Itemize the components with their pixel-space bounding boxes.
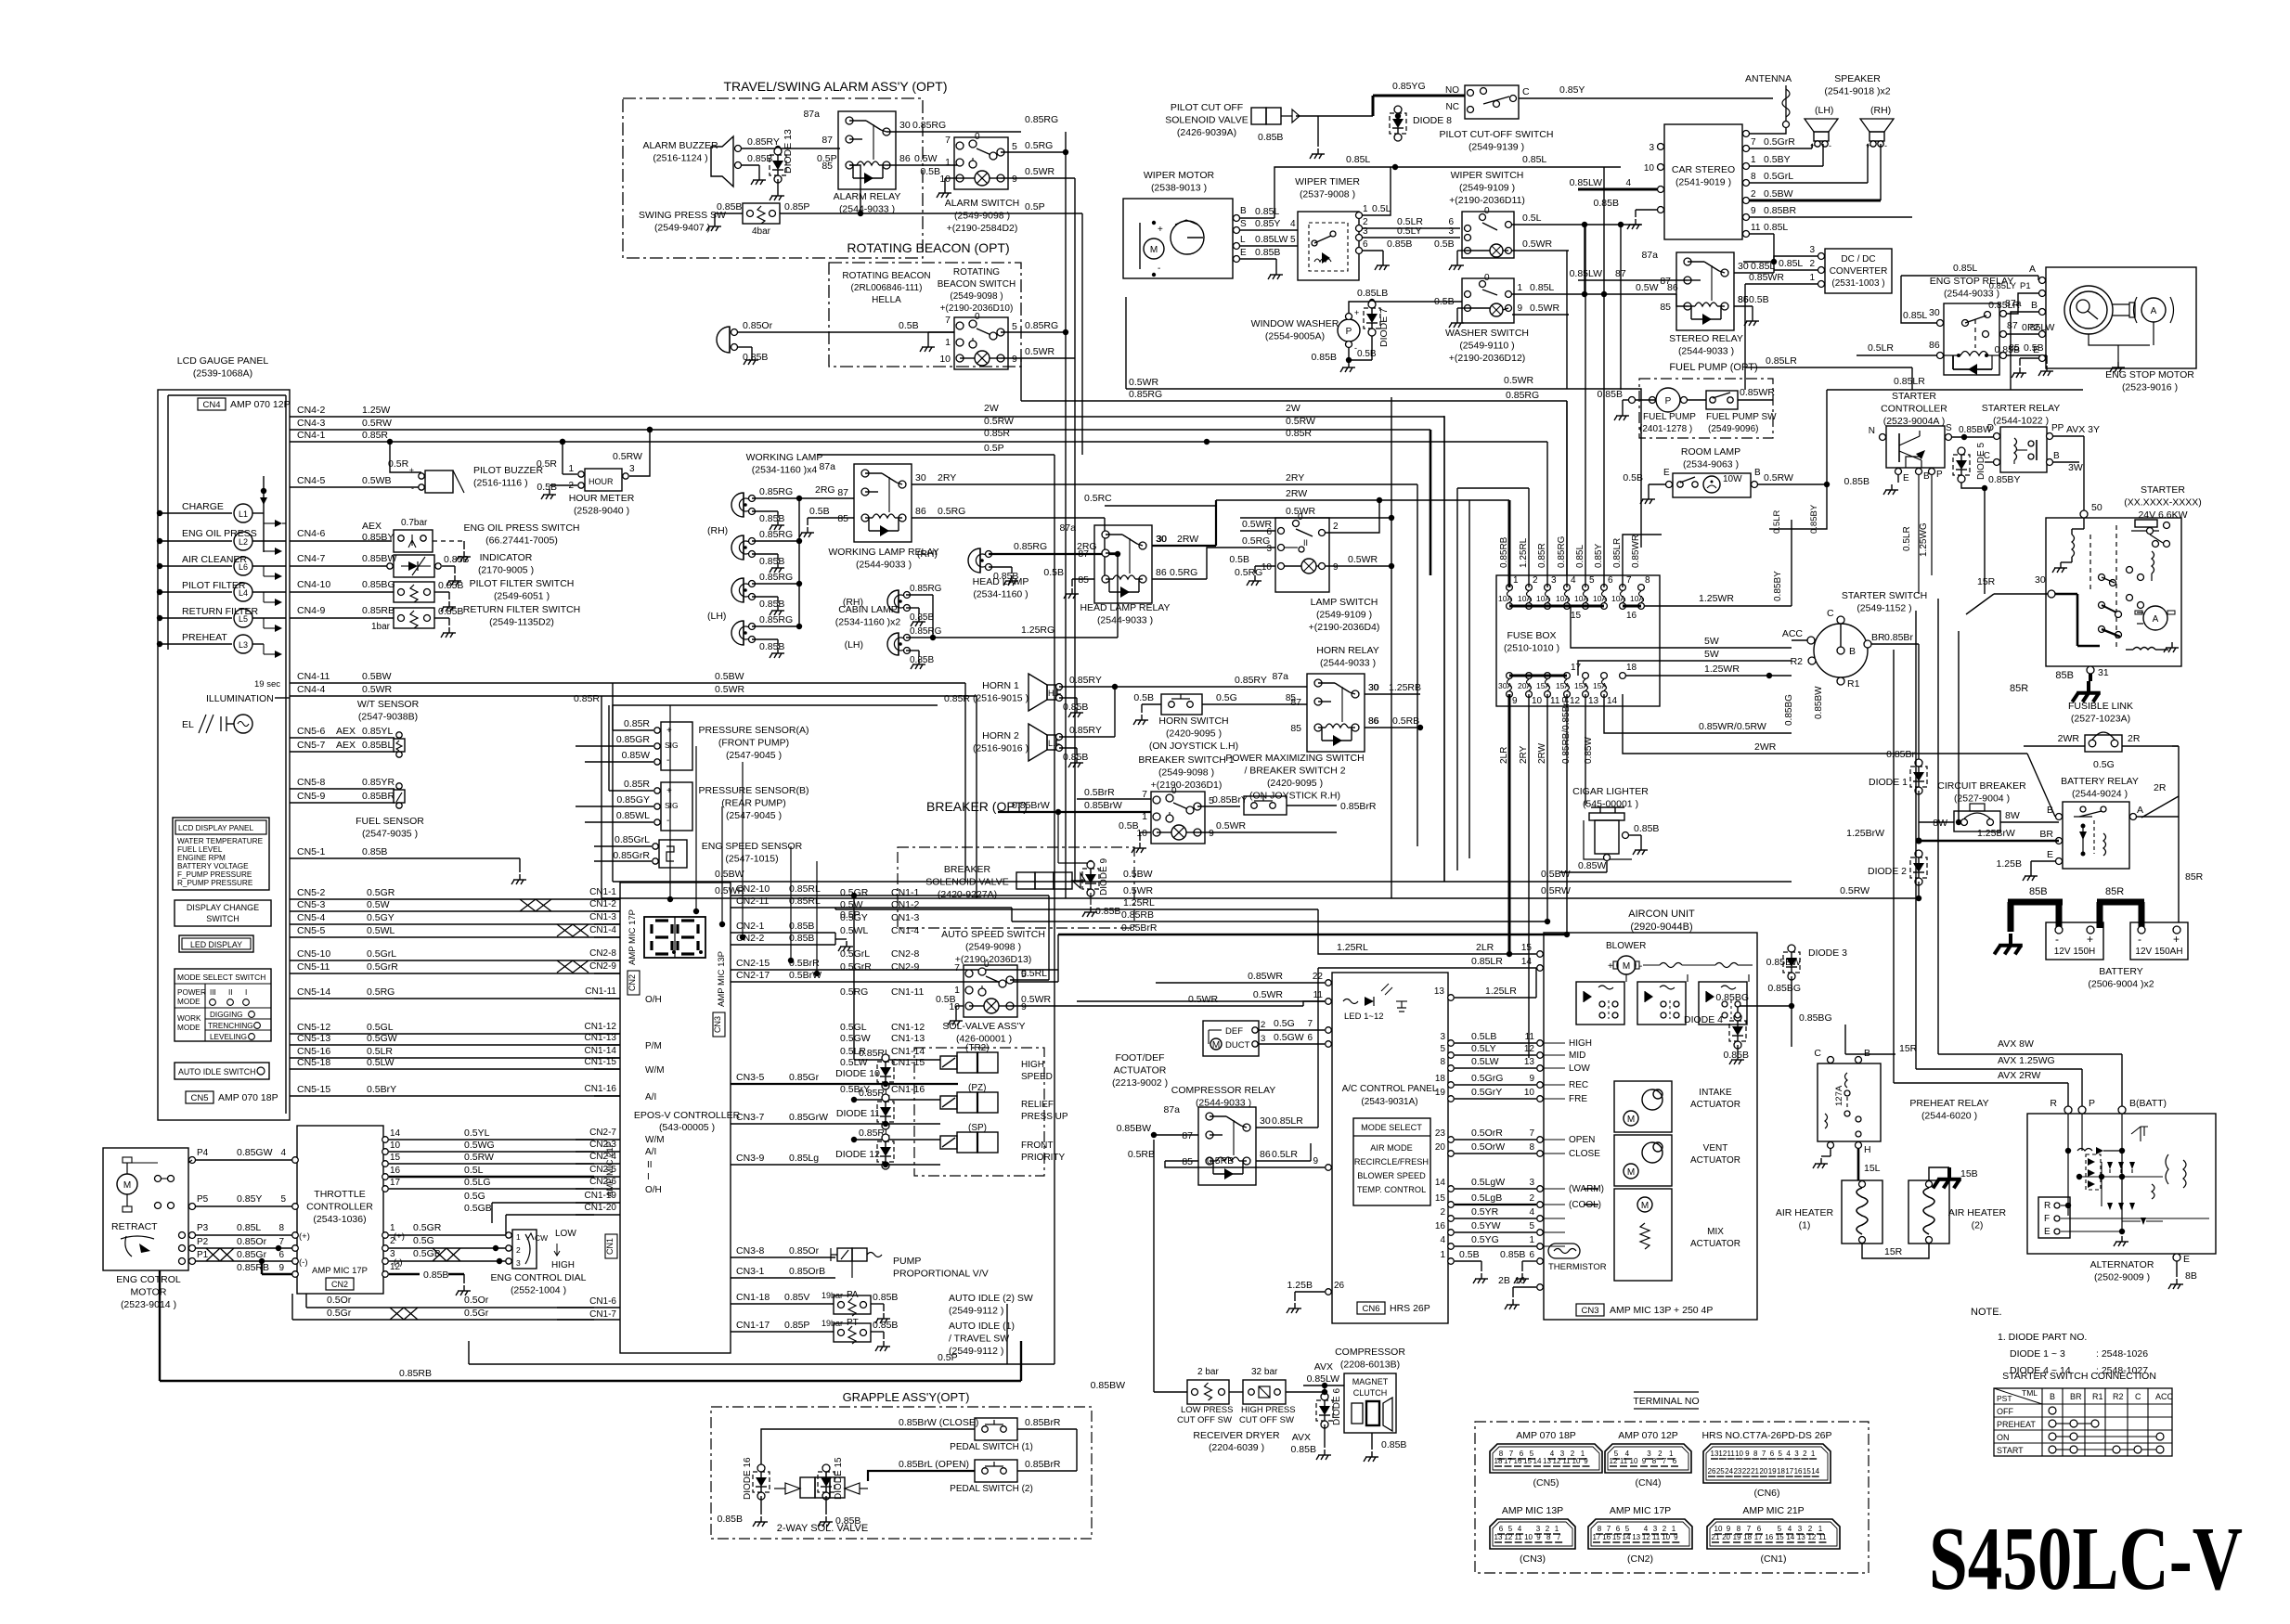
svg-text:(2549-9098 ): (2549-9098 ) — [1158, 767, 1214, 779]
svg-text:STARTER: STARTER — [1892, 391, 1936, 402]
starter relay pins — [1984, 423, 2064, 466]
svg-text:CN5-9: CN5-9 — [297, 791, 326, 802]
svg-text:0.85RG: 0.85RG — [759, 614, 793, 625]
svg-text:(FRONT PUMP): (FRONT PUMP) — [718, 738, 789, 749]
starter pin 31 ground — [2055, 666, 2108, 702]
svg-text:E: E — [2183, 1254, 2190, 1265]
compressor wires — [1303, 1361, 1344, 1397]
wire 0.5WR wiper sw out — [1512, 238, 1569, 251]
svg-text:0.5BW: 0.5BW — [1541, 869, 1571, 880]
aircon blower — [1606, 941, 1753, 974]
wire ACC — [1792, 639, 1807, 641]
svg-text:5W: 5W — [1704, 636, 1719, 647]
thick wire 0.85YG — [1296, 81, 1465, 119]
svg-text:17: 17 — [1504, 1457, 1512, 1465]
svg-text:+: + — [666, 786, 672, 796]
label battery — [2088, 966, 2154, 990]
svg-text:R_PUMP PRESSURE: R_PUMP PRESSURE — [177, 879, 253, 887]
svg-text:3: 3 — [1536, 1525, 1541, 1533]
charge diodes — [260, 497, 286, 527]
svg-text:7: 7 — [1529, 1128, 1534, 1139]
wire CN3-8 0.85Or — [731, 1245, 835, 1257]
svg-text:(2544-9033 ): (2544-9033 ) — [1678, 346, 1734, 357]
svg-text:31: 31 — [2098, 667, 2109, 678]
svg-text:1: 1 — [1809, 273, 1815, 283]
alarm buzzer BZ1 — [642, 136, 741, 187]
wire 0.85L A — [1901, 276, 2038, 280]
wiper timer pins — [1356, 204, 1369, 254]
svg-text:3: 3 — [1809, 245, 1815, 255]
svg-text:NC: NC — [1446, 102, 1459, 112]
svg-text:14: 14 — [1607, 696, 1618, 706]
svg-text:1: 1 — [1672, 1525, 1676, 1533]
svg-text:AMP 070 12P: AMP 070 12P — [230, 399, 291, 410]
svg-text:85B: 85B — [2055, 670, 2074, 681]
svg-text:P4: P4 — [197, 1148, 209, 1158]
starter controller pins — [1869, 423, 1952, 483]
svg-text:0.5B: 0.5B — [537, 482, 557, 493]
svg-text:(2539-1068A): (2539-1068A) — [193, 368, 252, 380]
window washer pump P1 — [1338, 308, 1360, 353]
label lcd gauge panel — [177, 355, 269, 380]
svg-text:(LH): (LH) — [707, 611, 726, 622]
svg-text:23: 23 — [1733, 1467, 1741, 1476]
verticals between horns and breaker — [0, 0, 1, 1]
svg-text:CONVERTER: CONVERTER — [1830, 266, 1888, 277]
svg-text:RETRACT: RETRACT — [111, 1221, 158, 1232]
CN5 signal rows — [290, 887, 925, 1096]
svg-text:0.5GR: 0.5GR — [367, 887, 395, 898]
svg-text:0.5RG: 0.5RG — [938, 506, 965, 517]
svg-text:PILOT FILTER SWITCH: PILOT FILTER SWITCH — [470, 578, 575, 589]
svg-text:2W: 2W — [984, 403, 999, 414]
svg-text:0.85R: 0.85R — [1286, 428, 1312, 439]
wire 10 0.5B to ground — [920, 166, 960, 198]
svg-text:87: 87 — [1660, 276, 1671, 287]
epos left pin rows lower — [576, 1128, 620, 1215]
svg-text:RECEIVER DRYER: RECEIVER DRYER — [1193, 1430, 1280, 1441]
svg-text:CN4-6: CN4-6 — [297, 528, 326, 539]
svg-text:0.5WR: 0.5WR — [1253, 989, 1284, 1000]
svg-text:CN3-9: CN3-9 — [736, 1153, 765, 1164]
svg-text:0.85B: 0.85B — [1995, 344, 2020, 355]
svg-text:0.85RY: 0.85RY — [1235, 675, 1267, 686]
label speaker LH — [1815, 105, 1833, 116]
svg-text:1.25WR: 1.25WR — [1704, 664, 1740, 675]
throttle P4 wire — [188, 1147, 298, 1164]
label 0.85L A — [1953, 263, 2046, 284]
svg-text:14: 14 — [1435, 1178, 1446, 1188]
svg-text:(CN4): (CN4) — [1636, 1477, 1662, 1489]
thermistor — [1548, 1244, 1607, 1272]
svg-text:30: 30 — [1929, 307, 1940, 318]
svg-text:STARTER SWITCH: STARTER SWITCH — [1842, 590, 1927, 601]
svg-text:15R: 15R — [1884, 1246, 1903, 1257]
svg-text:17: 17 — [1785, 1467, 1793, 1476]
svg-text:ALARM SWITCH: ALARM SWITCH — [945, 198, 1020, 209]
svg-text:22: 22 — [1742, 1467, 1751, 1476]
svg-text:TRENCHING: TRENCHING — [208, 1022, 253, 1030]
svg-text:0.85B: 0.85B — [1291, 1444, 1316, 1455]
svg-text:+(2190-2036D11): +(2190-2036D11) — [1449, 195, 1525, 206]
svg-text:PREHEAT: PREHEAT — [182, 632, 227, 643]
wire 0.85LW wiper L — [1240, 234, 1298, 246]
wire 11 0.85L down to stereo relay — [1743, 234, 1777, 264]
label air heater 1 — [1776, 1207, 1834, 1231]
svg-text:15: 15 — [1435, 1193, 1446, 1204]
svg-text:CN5-16: CN5-16 — [297, 1046, 330, 1057]
wire 0.85L wiper B — [1240, 154, 1621, 218]
label eng stop relay — [1930, 276, 2013, 300]
diode D10 — [835, 1054, 894, 1089]
svg-text:0.85BG: 0.85BG — [362, 579, 395, 590]
label rotating beacon — [842, 271, 930, 305]
svg-text:15: 15 — [1776, 1533, 1784, 1541]
svg-text:CN4-5: CN4-5 — [297, 475, 326, 486]
svg-text:86: 86 — [1156, 567, 1167, 578]
svg-text:GRAPPLE ASS'Y(OPT): GRAPPLE ASS'Y(OPT) — [843, 1390, 970, 1404]
head lamp relay K6 — [1059, 522, 1166, 603]
svg-text:0.5YR: 0.5YR — [1471, 1206, 1499, 1218]
svg-text:1.25RL: 1.25RL — [1123, 897, 1155, 909]
svg-text:1: 1 — [1363, 204, 1368, 214]
wire CN4-5 0.5WB — [290, 475, 425, 487]
svg-text:10A: 10A — [1630, 594, 1644, 603]
epos 7seg display — [644, 917, 705, 958]
svg-text:1: 1 — [1751, 155, 1756, 165]
svg-text:9: 9 — [1674, 1533, 1678, 1541]
svg-text:1: 1 — [568, 464, 574, 474]
svg-text:0.85Br: 0.85Br — [1884, 632, 1913, 643]
svg-text:0.85B: 0.85B — [1063, 702, 1088, 713]
svg-text:10: 10 — [1572, 1457, 1581, 1465]
svg-text:15A: 15A — [1574, 681, 1588, 690]
svg-text:0.85RB: 0.85RB — [399, 1368, 432, 1379]
svg-text:CN1-13: CN1-13 — [585, 1033, 617, 1043]
svg-text:2: 2 — [390, 1236, 395, 1246]
label starter switch connection — [2002, 1371, 2156, 1382]
svg-text:14: 14 — [1533, 1457, 1542, 1465]
svg-text:(LH): (LH) — [1815, 105, 1833, 116]
svg-text:0.5BY: 0.5BY — [1764, 154, 1791, 165]
svg-text:OFF: OFF — [1997, 1407, 2013, 1416]
svg-text:-: - — [666, 816, 669, 826]
svg-text:E: E — [2047, 849, 2053, 860]
throttle P5 wire — [189, 1193, 299, 1210]
svg-text:0.5WR: 0.5WR — [1348, 554, 1378, 565]
svg-text:17: 17 — [390, 1178, 401, 1188]
svg-text:DIODE 12: DIODE 12 — [835, 1149, 880, 1160]
horn switch — [1133, 692, 1307, 725]
svg-text:L1: L1 — [239, 509, 248, 519]
svg-text:CN5-18: CN5-18 — [297, 1057, 330, 1068]
svg-text:14: 14 — [1521, 957, 1533, 967]
svg-text:P: P — [1936, 470, 1943, 480]
svg-text:0.85B: 0.85B — [759, 513, 784, 524]
svg-text:PRESSURE SENSOR(A): PRESSURE SENSOR(A) — [698, 725, 809, 736]
svg-text:PST: PST — [1997, 1394, 2012, 1403]
label pressure sensor B — [698, 785, 809, 821]
svg-text:CABIN LAMP: CABIN LAMP — [838, 604, 898, 615]
svg-text:3: 3 — [1440, 1032, 1445, 1042]
svg-text:19 sec: 19 sec — [254, 679, 280, 690]
svg-text:0.85B: 0.85B — [1594, 198, 1619, 209]
svg-text:WIPER MOTOR: WIPER MOTOR — [1144, 170, 1215, 181]
svg-text:0.5G: 0.5G — [2093, 759, 2115, 770]
svg-text:+: + — [1158, 225, 1163, 235]
dcdc pins — [1809, 245, 1824, 288]
svg-text:0.5RG: 0.5RG — [1025, 140, 1053, 151]
svg-text:0: 0 — [1484, 273, 1490, 283]
svg-text:0.5GrR: 0.5GrR — [367, 961, 398, 973]
svg-text:HIGH PRESS: HIGH PRESS — [1241, 1405, 1296, 1415]
horn2 speaker — [973, 724, 1063, 761]
a/c control panel box — [1332, 973, 1448, 1323]
svg-text:M: M — [1627, 1115, 1635, 1125]
speaker wires vertical — [1812, 144, 1881, 200]
svg-text:W/M: W/M — [645, 1135, 665, 1145]
svg-text:0.5YG: 0.5YG — [1471, 1234, 1499, 1245]
label speaker — [1824, 73, 1890, 97]
svg-text:CN1-12: CN1-12 — [585, 1022, 617, 1032]
display change switch box — [175, 900, 271, 926]
svg-text:ROTATING: ROTATING — [953, 267, 1000, 277]
svg-text:CN6: CN6 — [1362, 1304, 1379, 1314]
svg-text:20: 20 — [1759, 1467, 1767, 1476]
starter relay internals — [2014, 438, 2037, 464]
pedal1 wires — [897, 1417, 1077, 1471]
wire fusible to battery relay — [2141, 782, 2179, 818]
wire 0.85B beacon gnd — [738, 347, 768, 365]
svg-text:87: 87 — [837, 487, 848, 498]
svg-text:0.85RG: 0.85RG — [1025, 320, 1058, 331]
epos W/M label — [645, 1065, 665, 1076]
svg-text:CN5-1: CN5-1 — [297, 846, 326, 857]
breaker diode9 wires — [1058, 812, 1120, 917]
svg-text:0.5GrR: 0.5GrR — [840, 961, 872, 973]
svg-text:10W: 10W — [1723, 474, 1742, 484]
svg-text:10A: 10A — [1556, 594, 1570, 603]
svg-text:0.5W: 0.5W — [914, 153, 938, 164]
wire 0.85LR y420 — [1769, 376, 2083, 529]
svg-text:CN3-8: CN3-8 — [736, 1245, 765, 1257]
diode D1 — [1869, 749, 1927, 841]
svg-text:AMP MIC 13P: AMP MIC 13P — [1502, 1505, 1563, 1516]
svg-text:0.85LR: 0.85LR — [1894, 376, 1925, 387]
label alarm relay — [834, 191, 901, 215]
svg-text:AVX: AVX — [1292, 1432, 1311, 1443]
svg-text:0.5RG: 0.5RG — [1235, 567, 1262, 578]
svg-text:(PZ): (PZ) — [968, 1083, 986, 1093]
svg-text:H: H — [1864, 1144, 1871, 1155]
svg-text:(CN5): (CN5) — [1533, 1477, 1559, 1489]
verticals 1890-1910 down — [0, 0, 1, 1]
svg-text:0.5OrW: 0.5OrW — [1471, 1141, 1505, 1153]
svg-text:3: 3 — [1448, 226, 1454, 237]
svg-text:0.5RL: 0.5RL — [1021, 968, 1047, 979]
wire 0.85RL diode11 — [851, 1088, 940, 1102]
svg-text:0: 0 — [975, 312, 980, 322]
label indicator — [478, 552, 534, 576]
svg-text:0.5LR: 0.5LR — [1772, 510, 1782, 534]
svg-text:7: 7 — [1307, 1019, 1313, 1029]
connector CN6 — [1701, 1430, 1831, 1499]
svg-text:15A: 15A — [1556, 681, 1570, 690]
wire CN4-6 0.85BY — [290, 521, 394, 543]
wire 0.85B wiper E — [1240, 247, 1283, 279]
label swing press sw — [639, 210, 726, 234]
svg-text:A: A — [2029, 264, 2036, 275]
svg-text:0.85BrR: 0.85BrR — [1025, 1459, 1061, 1470]
svg-text:CN3: CN3 — [1581, 1306, 1598, 1316]
svg-text:CN4-7: CN4-7 — [297, 553, 326, 564]
svg-text:1: 1 — [1513, 575, 1519, 586]
label wiper motor — [1144, 170, 1215, 194]
svg-text:4: 4 — [1440, 1235, 1445, 1245]
svg-text:C: C — [2135, 1392, 2141, 1401]
label power maximizing switch — [1225, 753, 1364, 802]
label compressor — [1335, 1347, 1405, 1371]
svg-text:TRAVEL/SWING ALARM ASS'Y (OPT): TRAVEL/SWING ALARM ASS'Y (OPT) — [724, 79, 948, 94]
svg-text:11: 11 — [1727, 1450, 1736, 1458]
svg-text:10: 10 — [1524, 1088, 1535, 1098]
svg-text:0.5LY: 0.5LY — [1397, 226, 1422, 237]
svg-text:11: 11 — [1652, 1533, 1661, 1541]
svg-text:2W: 2W — [1286, 403, 1300, 414]
wire 0.85LR label2 — [0, 0, 1, 1]
svg-text:0.85RB: 0.85RB — [362, 605, 395, 616]
wire 0.85LR bus — [0, 0, 1, 1]
svg-text:AMP MIC 21P: AMP MIC 21P — [605, 1141, 615, 1197]
labels eng stop motor pins — [1988, 281, 2045, 390]
svg-text:1: 1 — [1555, 1525, 1559, 1533]
svg-text:4: 4 — [1290, 219, 1296, 229]
pump proportional valve — [831, 1248, 882, 1278]
svg-text:0.85GrL: 0.85GrL — [615, 834, 650, 845]
svg-text:PILOT BUZZER: PILOT BUZZER — [473, 465, 543, 476]
svg-text:0.85B: 0.85B — [362, 846, 387, 857]
svg-text:CN1-2: CN1-2 — [589, 899, 616, 909]
pedal switch 2 — [950, 1460, 1033, 1494]
wire 0.85RB pin9 — [237, 1261, 298, 1277]
svg-text:0.5Gr: 0.5Gr — [327, 1308, 352, 1319]
diode D6 — [1291, 1388, 1342, 1460]
car stereo label — [1672, 164, 1735, 188]
label compressor relay — [1171, 1085, 1275, 1109]
starter controller internals — [1899, 431, 1925, 468]
fuel pump P2 — [1650, 388, 1688, 412]
svg-text:0.5BrR: 0.5BrR — [1084, 787, 1115, 798]
svg-text:AVX 1.25WG: AVX 1.25WG — [1998, 1055, 2055, 1066]
auto idle 1 switch PT — [834, 1318, 898, 1351]
label wiper timer — [1295, 176, 1360, 200]
svg-text:A: A — [2153, 614, 2159, 625]
epos mode labels lower — [645, 1135, 665, 1195]
svg-text:LCD DISPLAY PANEL: LCD DISPLAY PANEL — [178, 824, 253, 832]
svg-text:(2544-9033 ): (2544-9033 ) — [856, 560, 912, 571]
svg-text:3: 3 — [1551, 575, 1557, 586]
svg-text:ALTERNATOR: ALTERNATOR — [2090, 1259, 2154, 1270]
svg-text:(2534-1160 )x2: (2534-1160 )x2 — [835, 617, 901, 628]
svg-text:CN1-18: CN1-18 — [736, 1292, 770, 1303]
room lamp box — [1673, 473, 1751, 497]
svg-text:11: 11 — [1620, 1457, 1628, 1465]
svg-text:0.85W: 0.85W — [622, 750, 650, 761]
svg-text:CN1-3: CN1-3 — [891, 912, 920, 923]
svg-text:(2552-1004 ): (2552-1004 ) — [511, 1285, 566, 1296]
svg-text:87: 87 — [1078, 548, 1089, 560]
vertical 1130 0.85RL — [1048, 896, 1050, 980]
svg-text:/ TRAVEL SW: / TRAVEL SW — [949, 1334, 1009, 1345]
wire CN5-8 0.85YR — [290, 777, 395, 789]
verticals near starter controller — [0, 0, 1, 1]
svg-text:14: 14 — [390, 1128, 401, 1139]
svg-text:7: 7 — [945, 315, 951, 326]
svg-text:85: 85 — [837, 513, 848, 524]
svg-text:(2549-9098 ): (2549-9098 ) — [965, 942, 1021, 953]
svg-text:2: 2 — [1546, 1525, 1550, 1533]
svg-text:M: M — [1641, 1201, 1649, 1211]
connector CN2 — [1588, 1505, 1692, 1565]
svg-text:LED DISPLAY: LED DISPLAY — [190, 940, 242, 949]
svg-text:CN5-12: CN5-12 — [297, 1022, 330, 1033]
wire 15R label — [0, 0, 1, 1]
svg-text:CN2-17: CN2-17 — [736, 970, 770, 981]
wire CN4-3 0.5RW bus — [290, 416, 1430, 432]
svg-text:9: 9 — [1313, 1156, 1318, 1166]
svg-text:0.85B: 0.85B — [747, 153, 772, 164]
svg-text:0.5G: 0.5G — [464, 1191, 485, 1202]
svg-text:87a: 87a — [819, 461, 835, 472]
svg-text:1.25WR: 1.25WR — [1699, 593, 1734, 604]
svg-text:PEDAL SWITCH (1): PEDAL SWITCH (1) — [950, 1442, 1033, 1452]
pedal2 wires — [897, 1459, 1077, 1471]
dashed box breaker — [898, 847, 1134, 928]
svg-text:0.5WR: 0.5WR — [715, 885, 745, 896]
svg-text:22: 22 — [1313, 972, 1324, 982]
svg-text:13: 13 — [1494, 1533, 1503, 1541]
svg-text:14: 14 — [1623, 1533, 1631, 1541]
svg-text:1: 1 — [516, 1232, 521, 1242]
svg-text:0.5YW: 0.5YW — [1471, 1220, 1501, 1231]
svg-text:BREAKER SWITCH 1: BREAKER SWITCH 1 — [1138, 754, 1234, 766]
svg-text:0.7bar: 0.7bar — [401, 518, 428, 528]
bus 0.5BW mid — [613, 683, 1792, 882]
svg-text:0.5WR: 0.5WR — [1242, 519, 1273, 530]
svg-text:+: + — [409, 466, 414, 475]
svg-text:0.5LR: 0.5LR — [1272, 1149, 1298, 1160]
starter internals — [2052, 518, 2179, 652]
svg-text:5: 5 — [1779, 1450, 1783, 1458]
label cabin lamp — [835, 604, 901, 628]
svg-text:26: 26 — [1334, 1281, 1345, 1291]
wiper motor internals — [1140, 220, 1204, 277]
throttle P1 wire — [189, 1249, 308, 1268]
svg-text:D: D — [1987, 423, 1994, 433]
svg-text:P1: P1 — [2020, 281, 2031, 291]
svg-text:CUT OFF SW: CUT OFF SW — [1239, 1415, 1294, 1425]
svg-text:0.5LR: 0.5LR — [367, 1046, 393, 1057]
label CN4 AMP 070 12P — [198, 398, 291, 410]
svg-text:0.5RB: 0.5RB — [1207, 1155, 1234, 1166]
svg-text:0.5RW: 0.5RW — [464, 1152, 494, 1163]
bus 0.85RB mid — [1012, 908, 1547, 922]
svg-text:0.5GrL: 0.5GrL — [367, 948, 396, 960]
svg-text:TERMINAL NO: TERMINAL NO — [1633, 1396, 1699, 1407]
epos left rows CN1-6/7 — [557, 1296, 620, 1320]
wire CN3-7 0.85GrW — [731, 1112, 940, 1124]
svg-text:2 bar: 2 bar — [1197, 1367, 1219, 1377]
